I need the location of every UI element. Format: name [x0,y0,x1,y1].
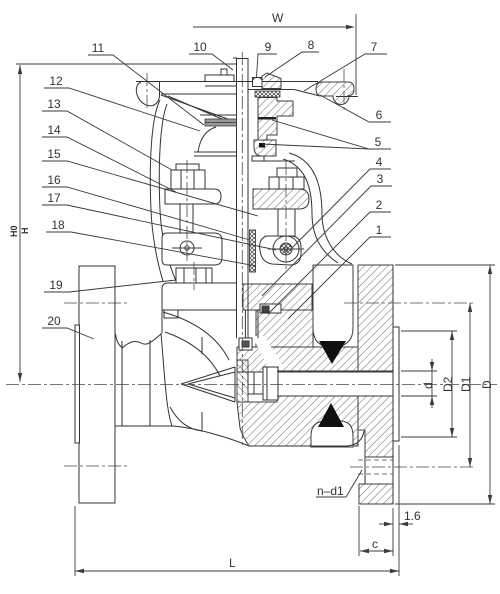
svg-text:3: 3 [377,172,384,186]
svg-text:15: 15 [47,147,61,161]
svg-text:4: 4 [376,155,383,169]
svg-text:13: 13 [47,97,61,111]
svg-text:19: 19 [49,278,63,292]
svg-text:1: 1 [376,223,383,237]
svg-text:H0: H0 [9,225,19,237]
svg-text:11: 11 [92,41,105,55]
svg-text:8: 8 [308,38,315,52]
svg-text:20: 20 [47,314,61,328]
svg-text:14: 14 [47,123,61,137]
svg-text:5: 5 [375,135,382,149]
svg-text:d: d [421,382,435,389]
svg-text:W: W [272,11,284,25]
svg-text:10: 10 [193,40,207,54]
svg-text:12: 12 [49,74,63,88]
svg-text:L: L [229,556,236,570]
svg-text:1.6: 1.6 [404,509,421,523]
svg-text:7: 7 [371,40,378,54]
svg-text:16: 16 [47,173,61,187]
svg-text:n–d1: n–d1 [317,484,344,498]
svg-text:2: 2 [376,198,383,212]
svg-text:c: c [372,537,378,551]
svg-text:D2: D2 [441,376,455,392]
svg-text:D: D [480,380,494,389]
svg-text:6: 6 [376,108,383,122]
svg-text:D1: D1 [459,376,473,392]
svg-text:18: 18 [51,218,65,232]
svg-text:H: H [20,228,30,235]
svg-text:17: 17 [47,191,61,205]
svg-text:9: 9 [265,40,272,54]
